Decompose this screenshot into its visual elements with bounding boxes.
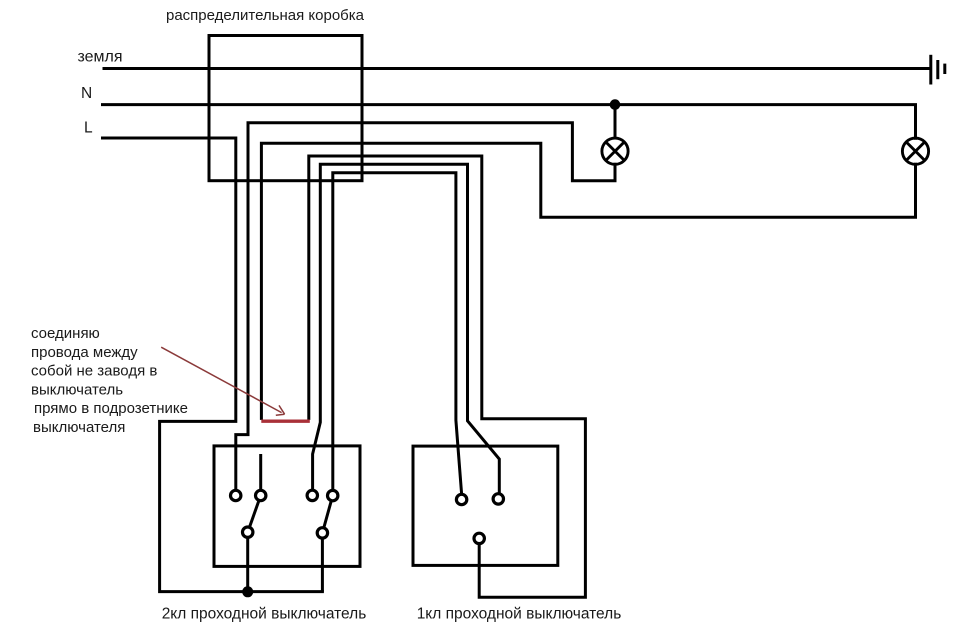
SW1 terminal T3 (307, 490, 317, 500)
N wire (103, 105, 916, 139)
SW1 terminal B2 (common B) (317, 528, 327, 538)
wire from SW1 B2 down to bottom run (321, 533, 324, 592)
svg-text:L: L (84, 120, 93, 137)
red annotation arrow (161, 347, 284, 415)
SW1 terminal T1 (231, 490, 241, 500)
SW2 terminal S1 (456, 494, 466, 504)
wire from SW1 B1 down to junction (246, 532, 249, 591)
svg-text:собой не заводя в: собой не заводя в (31, 363, 157, 380)
junction dot at switch1 common tie (242, 586, 253, 597)
wire E: traveler 2 (switch1 T4 to switch2 S1) (333, 173, 462, 494)
svg-text:провода между: провода между (31, 344, 138, 361)
svg-text:земля: земля (78, 49, 123, 66)
wire: lamp1 stub to N (614, 105, 617, 139)
SW1 lever gang B (B2 to T4) (322, 496, 332, 533)
svg-text:выключателя: выключателя (33, 419, 125, 436)
ground symbol (931, 55, 945, 85)
svg-text:N: N (81, 85, 92, 102)
lamp HL1 (602, 138, 628, 164)
svg-text:прямо в подрозетнике: прямо в подрозетнике (34, 400, 188, 417)
red joint bridge in podrozetnik (261, 420, 310, 423)
junction dot on N line (610, 99, 621, 110)
svg-text:выключатель: выключатель (31, 381, 123, 398)
wire C: switch2 common link down to red joint (309, 156, 586, 597)
ground wire (земля) (103, 67, 930, 70)
svg-text:2кл проходной выключатель: 2кл проходной выключатель (162, 606, 367, 623)
wire B: lamp2 feed down to red joint (261, 143, 915, 418)
svg-text:распределительная коробка: распределительная коробка (166, 7, 365, 24)
wire: stub above switch1 T2 (259, 454, 262, 490)
lamp HL2 (902, 138, 928, 164)
wire D: traveler 1 (switch1 T3 to switch2 S2) (313, 164, 500, 493)
SW1 terminal T2 (256, 490, 266, 500)
SW2 terminal SC (common) (474, 533, 484, 543)
SW1 lever gang A (B1 to T2) (248, 496, 261, 533)
svg-text:соединяю: соединяю (31, 325, 100, 342)
annotation text (red) (31, 325, 188, 436)
switch SW1 box (2-gang) (214, 446, 360, 567)
distribution box J1 (209, 36, 362, 181)
SW2 terminal S2 (493, 494, 503, 504)
L wire (103, 138, 323, 592)
svg-text:1кл проходной выключатель: 1кл проходной выключатель (417, 606, 622, 623)
switch SW2 box (1-gang) (413, 446, 558, 565)
SW1 terminal B1 (common A) (243, 527, 253, 537)
SW1 terminal T4 (328, 490, 338, 500)
wire A: lamp1 feed from switch1 T1 (236, 123, 615, 490)
